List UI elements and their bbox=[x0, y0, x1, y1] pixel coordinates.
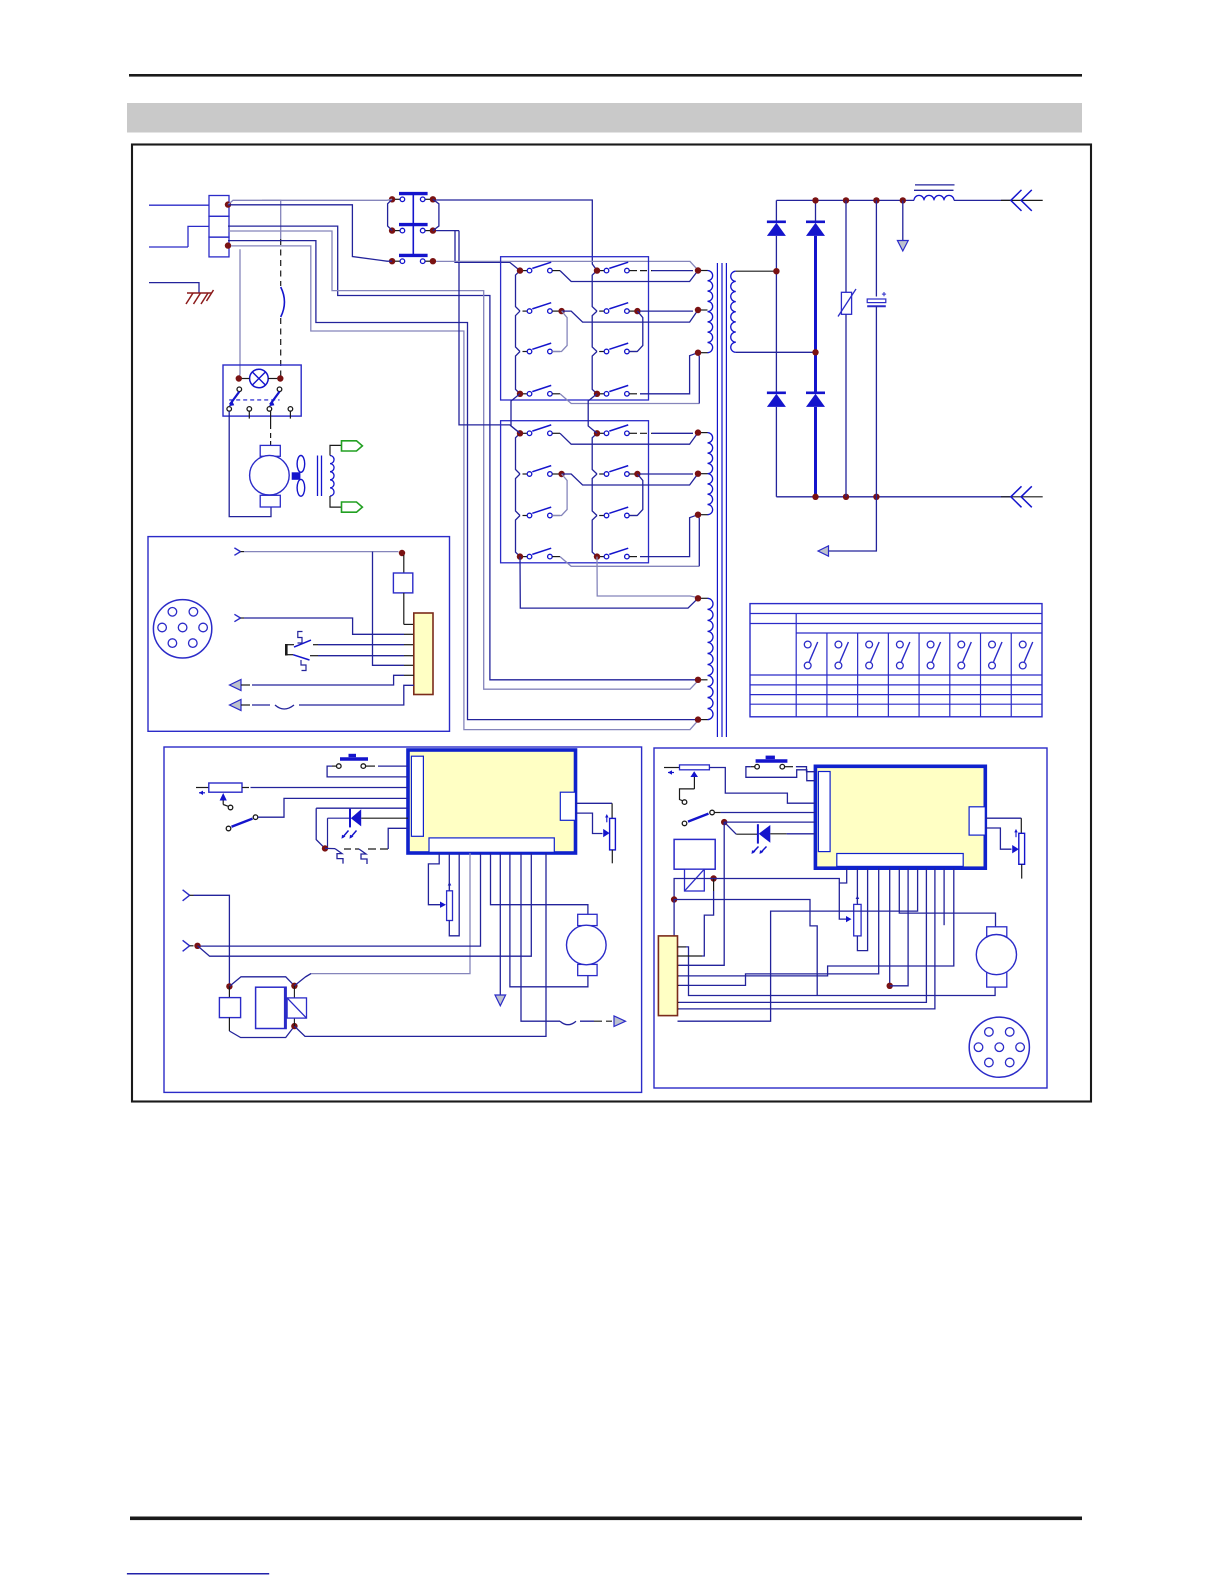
switch bank B1 row3 contacts bbox=[523, 343, 638, 354]
wire P2 switch to PCB bbox=[715, 812, 721, 814]
switch bank B1 row2 contacts bbox=[523, 303, 638, 314]
terminal grid switch 2 bbox=[835, 641, 848, 669]
node L2' junction bbox=[225, 242, 231, 248]
switch bank B2 frame bbox=[501, 421, 649, 563]
node opto B bbox=[721, 819, 727, 825]
wire thermostat lower to pin4 bbox=[318, 655, 404, 657]
lamp node dots bbox=[236, 375, 284, 381]
terminal grid switch 4 bbox=[896, 641, 909, 669]
LED B arrows bbox=[752, 847, 767, 855]
wire feed connector green 1 bbox=[342, 441, 363, 451]
transformer T1 tap dots bbox=[695, 267, 701, 723]
relay K1 coil bbox=[256, 987, 287, 1028]
switch bank B2 row4 pole A out bbox=[560, 557, 699, 567]
switch bank B1 pole chain links bbox=[516, 271, 598, 394]
power switch S1 pole 2 bbox=[389, 227, 436, 233]
round connector J1 bbox=[153, 600, 211, 658]
header rule bbox=[129, 74, 1082, 77]
P2 switch bbox=[682, 800, 714, 826]
ground symbol bbox=[186, 290, 214, 304]
contactor mechanical link (dashed) bbox=[229, 399, 279, 401]
PCB B pin3 to trimmer bottom bbox=[857, 868, 867, 950]
net arrow right A bbox=[614, 1016, 626, 1027]
switch bank B1 row2 pole B out bbox=[640, 310, 693, 312]
power switch S1 left link bbox=[388, 199, 393, 230]
fork terminal 4 (torch -) bbox=[183, 940, 190, 951]
varistor RV1 bbox=[838, 200, 856, 496]
node L1 junction bbox=[225, 201, 231, 207]
wire arrow B to pin7 bbox=[241, 704, 250, 706]
switch bank B2 row4 contacts bbox=[523, 548, 638, 559]
thermal contact square bbox=[219, 986, 240, 1031]
contactor contacts bbox=[237, 387, 282, 392]
indicator lamp bbox=[250, 369, 269, 388]
relay K1 top bridge bbox=[229, 977, 294, 987]
switch bank B2 row1 pole B out bbox=[640, 432, 652, 434]
wire bank1 feed bbox=[455, 231, 520, 271]
switch bank B1 frame bbox=[501, 257, 649, 400]
wire-feed motor M2 bbox=[567, 914, 607, 975]
output terminal chevron + bbox=[1001, 190, 1043, 211]
switch bank B2 row1 contacts bbox=[523, 425, 638, 436]
wire L2 input + jumper bbox=[149, 246, 188, 248]
DC- bottom bus bbox=[776, 496, 1012, 498]
wire secondary bottom to bridge bbox=[736, 351, 816, 353]
wire bank2 row4 left to tap C1 bbox=[520, 557, 698, 609]
node bridge AC1 bbox=[773, 268, 779, 274]
remote connector box frame bbox=[148, 537, 450, 732]
wire fork2 to pin2 bbox=[244, 618, 404, 634]
PCB B pin4 staircase to strip bbox=[679, 868, 879, 985]
PCB B pin8 wire bbox=[678, 868, 918, 1021]
contactor blades bbox=[229, 392, 280, 407]
fork terminal 3 (torch +) bbox=[183, 890, 190, 901]
wire fork1 to R1 bbox=[244, 551, 399, 553]
contactor bottom terminals bbox=[227, 407, 293, 412]
control PCB A bbox=[408, 750, 576, 853]
fork terminal 1 bbox=[234, 548, 240, 555]
wire thermostat upper to pin3 bbox=[318, 644, 404, 646]
strip B pin wires bbox=[678, 891, 996, 996]
switch bank B2 row2 pole B out bbox=[640, 473, 693, 475]
motor B (wire feed) bbox=[976, 927, 1016, 987]
wire S1 pole3 out to transformer tap A1 bbox=[436, 261, 698, 270]
LED arrows bbox=[342, 831, 357, 839]
wire bundle W2 (slate to tap B3a) bbox=[228, 231, 698, 689]
wire S1 pole2 out to bank feeds bbox=[436, 230, 459, 232]
control box B frame bbox=[654, 748, 1047, 1088]
potentiometer P2 bbox=[664, 765, 709, 801]
wire K2 down to strip bbox=[673, 900, 675, 936]
wire L1 to S1 pole1 bbox=[228, 199, 392, 204]
relay K2 left wire bbox=[674, 879, 714, 898]
wire contactor to fan motor top bbox=[270, 411, 272, 429]
switch bank B1 row4 contacts bbox=[523, 385, 638, 396]
terminal grid switch 7 bbox=[989, 641, 1002, 669]
power switch S1 pole 3 bbox=[389, 258, 436, 264]
switch bank B1 node dots bbox=[517, 267, 641, 397]
PCB A pin2 to trimmer top bbox=[448, 853, 450, 891]
PCB A right trimmer bbox=[576, 803, 616, 863]
wire pushbutton B right bbox=[789, 766, 796, 768]
wire bank2 row4 right to tap C1 bbox=[597, 557, 698, 598]
wire K2 right node to trimmer arrow bbox=[713, 879, 715, 892]
round connector J2 bbox=[969, 1017, 1029, 1077]
fork terminal 2 bbox=[234, 614, 240, 621]
wire bank1-bank2 pole links bbox=[511, 394, 520, 434]
capacitor C1 bbox=[867, 200, 886, 496]
PCB B pin10 to strip bbox=[679, 868, 935, 1009]
node bridge AC2 bbox=[812, 349, 818, 355]
PCB B pin9 to strip bbox=[679, 868, 926, 1002]
terminal grid switch 8 bbox=[1019, 641, 1032, 669]
wire P1 to PCB bbox=[242, 787, 249, 789]
wire opto node to PCB bbox=[724, 821, 815, 823]
switch bank B1 pole B row2-row3 tie bbox=[629, 311, 643, 351]
P1 switch bbox=[226, 805, 258, 831]
diode D3 bbox=[767, 271, 786, 497]
trimmer R3 bbox=[854, 896, 861, 936]
PCB B pin7 wire bbox=[890, 868, 908, 986]
diode D1 bbox=[767, 200, 786, 271]
footer rule bbox=[130, 1517, 1082, 1521]
PCB B pin11 wire bbox=[943, 868, 945, 925]
switch bank B1 row2 pole A out bbox=[562, 310, 698, 322]
PCB A pin6 to motor top bbox=[491, 853, 588, 914]
PCB B right trimmer bbox=[985, 818, 1024, 878]
toroid inductor core bbox=[317, 456, 319, 497]
PCB A pin1 to trimmer wiper bbox=[428, 853, 440, 905]
PCB B pin12 staircase to strip bbox=[679, 868, 954, 976]
wire PE to ground bbox=[149, 283, 199, 293]
node fork dot bbox=[194, 943, 200, 949]
PCB A pin3 to trimmer bottom bbox=[449, 853, 459, 936]
PCB B pin2 to trimmer top bbox=[856, 868, 858, 904]
terminal strip grid lines bbox=[750, 614, 1042, 717]
PCB A pin5 to fork dot bbox=[199, 853, 481, 946]
node pin5 junction bbox=[887, 983, 893, 989]
net arrow left (torch) bbox=[818, 546, 829, 556]
lamp contactor box bbox=[223, 365, 301, 416]
lamp stubs bbox=[242, 378, 250, 380]
wire S1 pole1 out to bank1 bbox=[436, 200, 597, 271]
PCB B pin5 wire bbox=[889, 868, 891, 986]
wire L2' down to lamp box bbox=[239, 249, 240, 378]
terminal grid switch 5 bbox=[927, 641, 940, 669]
toroid inductor winding bbox=[330, 456, 334, 497]
PCB A pin4 to relay bridge bbox=[306, 853, 470, 977]
terminal strip grid frame bbox=[750, 604, 1042, 717]
wire P2 right to PCB bbox=[709, 768, 815, 804]
switch bank B2 pole B row2-row3 tie bbox=[629, 474, 643, 516]
schematic outer frame bbox=[132, 145, 1091, 1102]
terminal block X1 bbox=[209, 196, 229, 257]
relay K1 diode bbox=[287, 986, 306, 1026]
wire bundle W1 (L2 to transformer tap B3a) bbox=[228, 226, 698, 680]
title bar (gray) bbox=[127, 103, 1082, 133]
switch bank B2 pole A row2-row3 tie bbox=[552, 474, 567, 516]
wire relay to pin4 bridge bbox=[294, 974, 311, 986]
wire feed connector green 2 bbox=[342, 502, 363, 512]
diode D2 bbox=[806, 200, 825, 236]
wire L1 to S1 pole3 bbox=[228, 205, 392, 261]
node opto emitter bbox=[322, 845, 328, 851]
fan blades bbox=[292, 456, 305, 497]
wire P1 switch to PCB bbox=[258, 798, 408, 817]
wire bundle W4 (slate to tap B3c) bbox=[231, 246, 698, 730]
trimmer R2 bbox=[447, 882, 453, 921]
relay K2 coil bbox=[674, 839, 715, 869]
contactor terminal ticks bbox=[248, 411, 250, 418]
switch bank B2 row3 contacts bbox=[523, 507, 638, 518]
footer link underline bbox=[127, 1573, 269, 1575]
wire C1 to gun arrow bbox=[828, 497, 876, 551]
wire L1 branch to breaker (slate) bbox=[262, 200, 281, 239]
relay K1 bottom bridge bbox=[229, 1026, 294, 1037]
output choke L2 core bbox=[914, 185, 955, 190]
relay K1 node mid bbox=[291, 983, 297, 989]
power switch S1 pole 1 bbox=[389, 196, 436, 202]
terminal grid switch 1 bbox=[804, 641, 817, 669]
relay K2 node right bbox=[710, 875, 716, 881]
switch bank B2 row1 pole A out bbox=[560, 433, 698, 445]
net arrow trigger B bbox=[230, 700, 242, 711]
wire fork1 branch to pin5 bbox=[373, 552, 405, 666]
control box A frame bbox=[164, 747, 642, 1092]
torch pushbutton B bbox=[751, 756, 789, 769]
circuit breaker thermal element bbox=[280, 239, 282, 286]
power switch S1 actuator bars bbox=[399, 194, 428, 256]
switch bank B1 row1 pole B out bbox=[640, 270, 652, 272]
wire opto node down to strip bbox=[679, 822, 724, 965]
thermostat contact bbox=[286, 632, 318, 671]
control PCB B bbox=[815, 766, 985, 868]
output terminal chevron - bbox=[1001, 486, 1043, 507]
wire pushbutton B left bbox=[746, 767, 816, 781]
wire choke to output+ bbox=[954, 199, 1012, 201]
thick DC bus (bridge arm) bbox=[814, 236, 817, 393]
potentiometer P1 bbox=[196, 783, 242, 806]
wire contactor to fan motor loop bbox=[229, 411, 271, 516]
switch bank B1 row1 contacts bbox=[523, 262, 638, 273]
DC+ top bus bbox=[776, 199, 914, 201]
fan motor M1 bbox=[250, 445, 290, 507]
relay K1 node top bbox=[226, 983, 232, 989]
switch bank B2 pole chain links bbox=[516, 433, 598, 556]
wire pushbutton A left bbox=[327, 766, 408, 777]
switch bank B1 row4 pole A out bbox=[560, 394, 699, 404]
terminal strip B (yellow) bbox=[658, 936, 677, 1016]
bottom bus node dots bbox=[812, 494, 879, 500]
output choke L2 winding bbox=[914, 195, 954, 200]
wire L1 input bbox=[149, 204, 209, 206]
switch bank B2 node dots bbox=[517, 430, 641, 560]
diode D4 bbox=[806, 393, 825, 407]
net arrow down A bbox=[495, 995, 506, 1006]
PCB A pin10 to fork dot diag bbox=[198, 853, 532, 956]
wire pushbutton A right bbox=[371, 765, 378, 767]
relay K1 node bottom bbox=[291, 1023, 297, 1029]
transformer T1 primary winding A bbox=[708, 271, 713, 353]
net arrow down (earth) bbox=[897, 200, 908, 251]
transformer T1 tap stubs bbox=[698, 271, 708, 720]
node R1 top bbox=[399, 550, 405, 556]
top bus node dots bbox=[812, 197, 906, 203]
resistor R1 bbox=[393, 555, 413, 624]
transformer T1 core bbox=[717, 263, 726, 737]
faston terminals pair bbox=[325, 828, 408, 864]
PCB A pin8 to motor bottom bbox=[510, 853, 588, 987]
switch bank B2 row4 pole B out bbox=[640, 515, 698, 557]
PCB A pin7 to net arrow bbox=[499, 853, 501, 995]
power switch S1 right link bbox=[433, 199, 439, 230]
optocoupler LED D5 bbox=[316, 808, 408, 848]
PCB B pin6b motor top feed bbox=[899, 868, 995, 927]
wire bundle W3 (to tap B3c) bbox=[228, 241, 698, 720]
wire bank2 feed bbox=[459, 231, 520, 434]
PCB A pin11 to relay bbox=[311, 853, 546, 1036]
connector pcb header (yellow) bbox=[414, 613, 433, 695]
PCB A pin9 to output arrow bbox=[521, 853, 560, 1021]
transformer T1 primary winding B bbox=[708, 433, 713, 515]
switch bank B1 pole A row2-row3 tie bbox=[552, 311, 567, 351]
switch bank B1 row4 pole B out bbox=[640, 353, 698, 394]
transformer T1 primary winding C bbox=[708, 598, 714, 719]
switch bank B1 row1 pole A out bbox=[560, 271, 698, 282]
relay K2 diode bbox=[685, 869, 705, 891]
wire K2 node down right bbox=[674, 900, 817, 996]
optocoupler LED D6 bbox=[724, 822, 815, 844]
relay K2 node left bbox=[671, 896, 677, 902]
wire relay bottom to pin11 bbox=[294, 1026, 311, 1036]
relay K1 feed wire bbox=[194, 895, 230, 984]
net arrow trigger A bbox=[230, 680, 242, 691]
wire inductor to wire-feed arrows bbox=[330, 445, 342, 455]
transformer T1 secondary winding bbox=[731, 271, 736, 352]
wire secondary top to bridge bbox=[736, 270, 777, 272]
switch bank B2 row2 pole A out bbox=[562, 474, 698, 485]
terminal grid switch 6 bbox=[958, 641, 971, 669]
switch bank B2 row2 contacts bbox=[523, 466, 638, 477]
terminal grid switch 3 bbox=[866, 641, 879, 669]
PCB B pin1 wire bbox=[839, 868, 846, 883]
wire arrow A to pin6 bbox=[241, 684, 250, 686]
torch pushbutton A bbox=[332, 754, 371, 769]
